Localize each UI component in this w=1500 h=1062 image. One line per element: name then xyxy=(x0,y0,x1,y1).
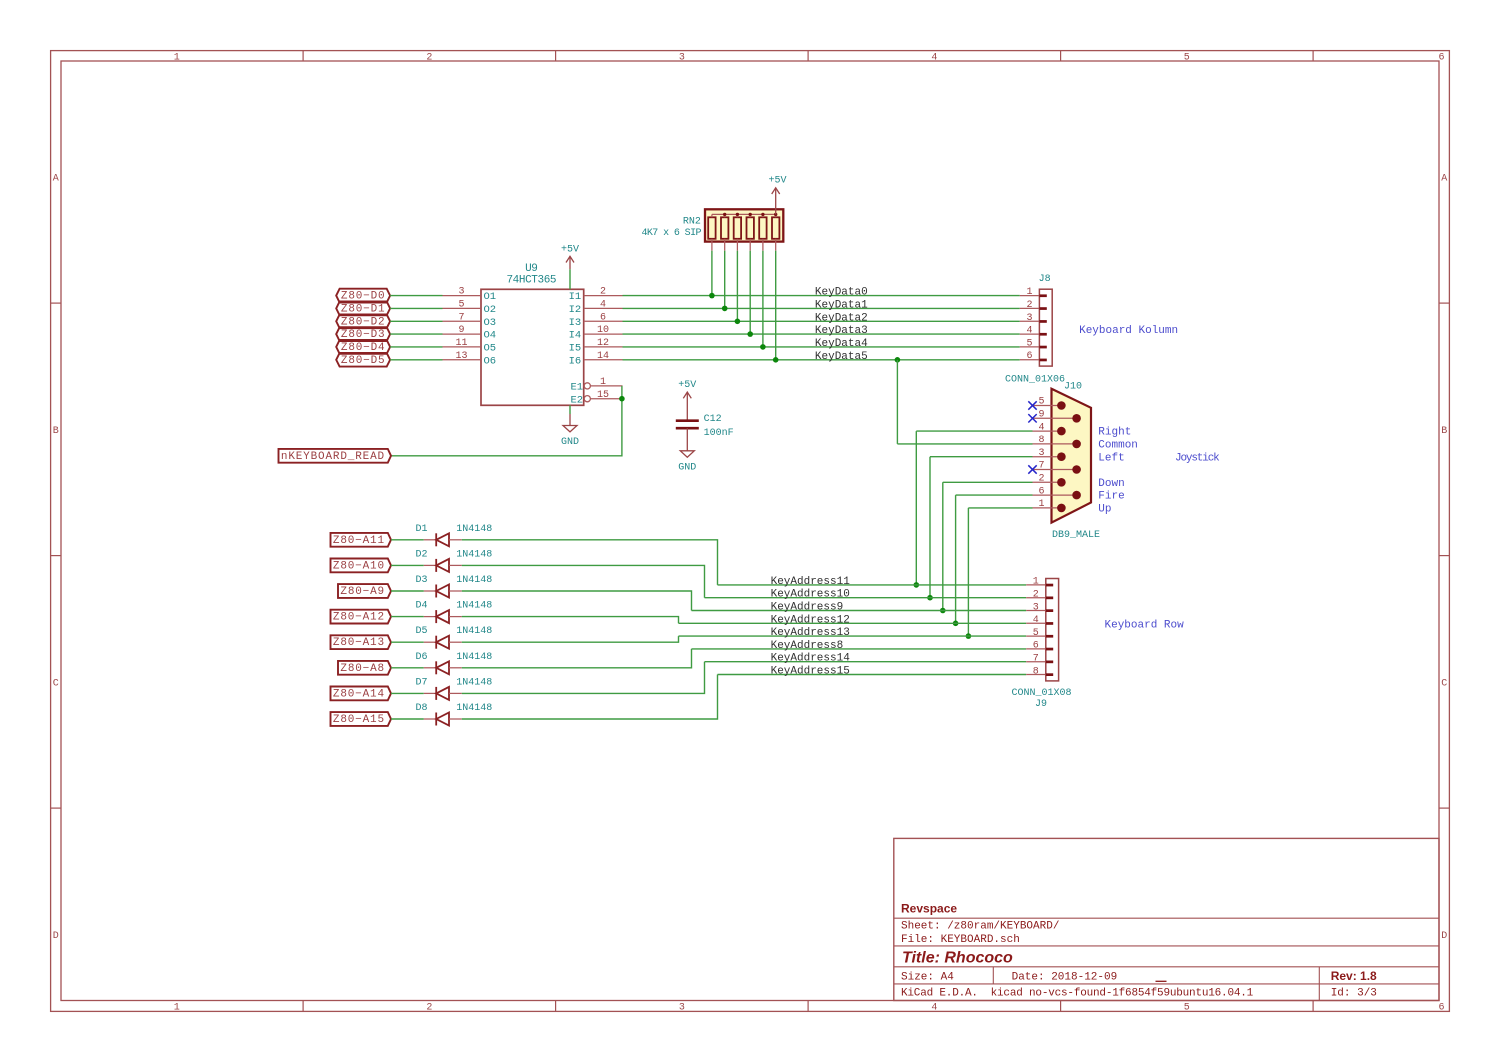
svg-text:Revspace: Revspace xyxy=(901,902,957,916)
svg-text:2: 2 xyxy=(1038,474,1044,485)
svg-text:C: C xyxy=(1441,679,1447,690)
svg-text:Left: Left xyxy=(1098,452,1124,464)
svg-text:1N4148: 1N4148 xyxy=(456,549,492,560)
svg-text:A: A xyxy=(53,173,59,184)
svg-text:5: 5 xyxy=(1033,628,1039,639)
svg-text:KeyAddress12: KeyAddress12 xyxy=(771,614,850,626)
svg-text:E2: E2 xyxy=(570,394,583,406)
svg-text:Id: 3/3: Id: 3/3 xyxy=(1331,988,1377,1000)
svg-text:8: 8 xyxy=(1038,435,1044,446)
svg-text:1: 1 xyxy=(1026,287,1032,298)
svg-text:14: 14 xyxy=(597,351,609,362)
svg-text:4: 4 xyxy=(931,53,937,64)
svg-text:1N4148: 1N4148 xyxy=(456,703,492,714)
svg-text:4: 4 xyxy=(1038,422,1044,433)
svg-text:Z80−A8: Z80−A8 xyxy=(340,663,385,675)
svg-text:1: 1 xyxy=(600,377,606,388)
svg-text:U9: U9 xyxy=(525,263,537,275)
svg-text:6: 6 xyxy=(1438,53,1444,64)
svg-text:5: 5 xyxy=(1184,1003,1190,1014)
svg-text:KeyData1: KeyData1 xyxy=(815,300,868,312)
svg-text:A: A xyxy=(1441,173,1447,184)
svg-text:4: 4 xyxy=(1033,615,1039,626)
svg-text:Z80−A12: Z80−A12 xyxy=(333,612,385,624)
svg-text:7: 7 xyxy=(458,312,464,323)
svg-text:J9: J9 xyxy=(1035,699,1047,710)
svg-text:Fire: Fire xyxy=(1098,491,1124,503)
svg-text:D2: D2 xyxy=(415,549,427,560)
svg-text:D6: D6 xyxy=(415,652,427,663)
svg-text:100nF: 100nF xyxy=(704,428,734,439)
svg-text:I3: I3 xyxy=(569,317,582,329)
svg-text:2: 2 xyxy=(600,287,606,298)
svg-text:Joystick: Joystick xyxy=(1175,452,1220,464)
svg-text:O3: O3 xyxy=(484,317,497,329)
svg-text:8: 8 xyxy=(1033,666,1039,677)
svg-text:Sheet: /z80ram/KEYBOARD/: Sheet: /z80ram/KEYBOARD/ xyxy=(901,921,1059,933)
svg-text:3: 3 xyxy=(458,287,464,298)
svg-text:O5: O5 xyxy=(484,343,497,355)
svg-text:9: 9 xyxy=(458,325,464,336)
svg-text:Down: Down xyxy=(1098,478,1124,490)
svg-text:6: 6 xyxy=(1438,1003,1444,1014)
svg-text:Z80−A9: Z80−A9 xyxy=(340,586,385,598)
svg-text:13: 13 xyxy=(455,351,467,362)
svg-text:1N4148: 1N4148 xyxy=(456,652,492,663)
svg-text:Rev: 1.8: Rev: 1.8 xyxy=(1331,969,1377,983)
svg-text:2: 2 xyxy=(426,53,432,64)
svg-text:3: 3 xyxy=(1026,313,1032,324)
svg-text:C12: C12 xyxy=(704,414,722,425)
svg-text:I6: I6 xyxy=(569,355,582,367)
svg-text:I4: I4 xyxy=(569,330,582,342)
svg-text:C: C xyxy=(53,679,59,690)
svg-text:Z80−A11: Z80−A11 xyxy=(333,535,385,547)
svg-text:KeyAddress9: KeyAddress9 xyxy=(771,602,844,614)
svg-text:Common: Common xyxy=(1098,440,1138,452)
svg-text:2: 2 xyxy=(1026,300,1032,311)
svg-text:I2: I2 xyxy=(569,304,582,316)
svg-text:D3: D3 xyxy=(415,575,427,586)
svg-text:D1: D1 xyxy=(415,524,427,535)
svg-text:12: 12 xyxy=(597,338,609,349)
svg-text:KeyAddress11: KeyAddress11 xyxy=(771,576,851,588)
svg-text:9: 9 xyxy=(1038,410,1044,421)
svg-text:KeyData4: KeyData4 xyxy=(815,338,868,350)
svg-text:D: D xyxy=(1441,931,1447,942)
svg-text:Z80−A10: Z80−A10 xyxy=(333,560,385,572)
svg-text:6: 6 xyxy=(600,312,606,323)
svg-text:3: 3 xyxy=(679,1003,685,1014)
svg-text:15: 15 xyxy=(597,390,609,401)
svg-text:1N4148: 1N4148 xyxy=(456,677,492,688)
svg-text:DB9_MALE: DB9_MALE xyxy=(1052,530,1100,541)
svg-text:1N4148: 1N4148 xyxy=(456,575,492,586)
svg-text:O4: O4 xyxy=(484,330,497,342)
svg-text:B: B xyxy=(1441,426,1447,437)
svg-text:J10: J10 xyxy=(1064,382,1082,393)
svg-text:O2: O2 xyxy=(484,304,497,316)
svg-text:1: 1 xyxy=(1038,499,1044,510)
svg-text:6: 6 xyxy=(1033,641,1039,652)
svg-text:KeyData3: KeyData3 xyxy=(815,325,868,337)
svg-text:+5V: +5V xyxy=(678,380,696,391)
svg-text:Z80−A13: Z80−A13 xyxy=(333,637,385,649)
svg-text:D7: D7 xyxy=(415,677,427,688)
svg-text:+5V: +5V xyxy=(768,175,786,186)
svg-text:GND: GND xyxy=(678,463,696,474)
svg-text:4: 4 xyxy=(931,1003,937,1014)
svg-text:4K7 x 6 SIP: 4K7 x 6 SIP xyxy=(641,228,701,239)
svg-text:KeyAddress10: KeyAddress10 xyxy=(771,589,850,601)
svg-text:Size: A4: Size: A4 xyxy=(901,972,954,984)
svg-text:3: 3 xyxy=(1038,448,1044,459)
svg-text:Z80−A14: Z80−A14 xyxy=(333,688,385,700)
svg-text:KeyAddress8: KeyAddress8 xyxy=(771,640,844,652)
svg-text:11: 11 xyxy=(455,338,467,349)
svg-text:5: 5 xyxy=(458,300,464,311)
svg-text:4: 4 xyxy=(600,300,606,311)
svg-text:2: 2 xyxy=(426,1003,432,1014)
svg-text:1: 1 xyxy=(174,53,180,64)
svg-text:1: 1 xyxy=(1033,577,1039,588)
svg-text:Z80−A15: Z80−A15 xyxy=(333,714,385,726)
svg-text:B: B xyxy=(53,426,59,437)
svg-text:7: 7 xyxy=(1033,654,1039,665)
svg-text:RN2: RN2 xyxy=(683,217,701,228)
svg-text:1N4148: 1N4148 xyxy=(456,601,492,612)
svg-text:E1: E1 xyxy=(570,382,583,394)
svg-text:3: 3 xyxy=(679,53,685,64)
svg-text:1N4148: 1N4148 xyxy=(456,524,492,535)
svg-text:Z80−D5: Z80−D5 xyxy=(341,355,386,367)
svg-text:1N4148: 1N4148 xyxy=(456,626,492,637)
svg-text:KeyData0: KeyData0 xyxy=(815,287,868,299)
svg-text:I5: I5 xyxy=(569,343,582,355)
svg-text:J8: J8 xyxy=(1039,274,1051,285)
svg-text:I1: I1 xyxy=(569,291,582,303)
svg-text:Keyboard Kolumn: Keyboard Kolumn xyxy=(1079,325,1178,337)
svg-text:10: 10 xyxy=(597,325,609,336)
svg-text:O6: O6 xyxy=(484,355,497,367)
svg-text:D4: D4 xyxy=(415,601,427,612)
svg-text:D5: D5 xyxy=(415,626,427,637)
svg-text:74HCT365: 74HCT365 xyxy=(506,274,556,286)
svg-text:D: D xyxy=(53,931,59,942)
svg-text:KiCad E.D.A. kicad no-vcs-fou: KiCad E.D.A. kicad no-vcs-found-1f6854f5… xyxy=(901,988,1254,1000)
svg-text:6: 6 xyxy=(1026,351,1032,362)
svg-text:KeyData5: KeyData5 xyxy=(815,351,868,363)
svg-text:Date: 2018-12-09: Date: 2018-12-09 xyxy=(1012,972,1118,984)
svg-text:5: 5 xyxy=(1184,53,1190,64)
svg-text:D8: D8 xyxy=(415,703,427,714)
svg-text:File: KEYBOARD.sch: File: KEYBOARD.sch xyxy=(901,934,1020,946)
svg-text:nKEYBOARD_READ: nKEYBOARD_READ xyxy=(281,451,385,463)
svg-text:4: 4 xyxy=(1026,326,1032,337)
svg-text:1: 1 xyxy=(174,1003,180,1014)
svg-text:5: 5 xyxy=(1026,338,1032,349)
svg-text:7: 7 xyxy=(1038,461,1044,472)
svg-text:KeyAddress14: KeyAddress14 xyxy=(771,653,851,665)
svg-text:Up: Up xyxy=(1098,504,1111,516)
svg-text:5: 5 xyxy=(1038,397,1044,408)
svg-text:CONN_01X08: CONN_01X08 xyxy=(1011,688,1071,699)
svg-text:2: 2 xyxy=(1033,590,1039,601)
svg-text:3: 3 xyxy=(1033,602,1039,613)
svg-text:Title: Rhococo: Title: Rhococo xyxy=(902,950,1013,967)
svg-text:KeyAddress13: KeyAddress13 xyxy=(771,627,850,639)
svg-text:Keyboard Row: Keyboard Row xyxy=(1105,620,1185,632)
svg-text:Right: Right xyxy=(1098,427,1131,439)
svg-text:GND: GND xyxy=(561,437,579,448)
svg-text:KeyData2: KeyData2 xyxy=(815,312,868,324)
svg-text:O1: O1 xyxy=(484,291,497,303)
svg-text:6: 6 xyxy=(1038,486,1044,497)
svg-text:CONN_01X06: CONN_01X06 xyxy=(1005,375,1065,386)
svg-text:+5V: +5V xyxy=(561,245,579,256)
svg-text:KeyAddress15: KeyAddress15 xyxy=(771,666,850,678)
